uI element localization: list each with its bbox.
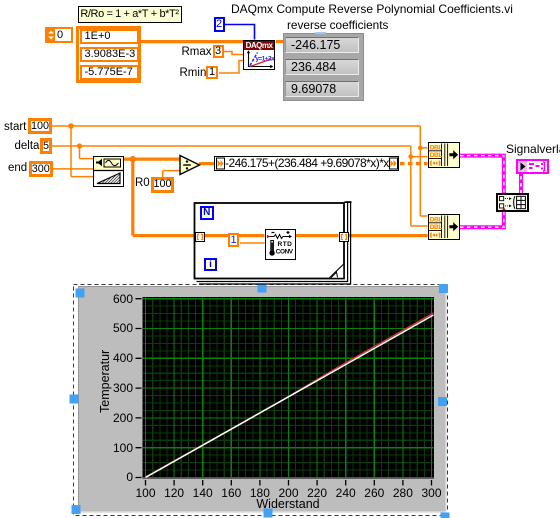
array index box	[45, 27, 73, 43]
op RTD CONV icon	[265, 229, 296, 260]
svg-text:y=1+2x: y=1+2x	[256, 55, 275, 62]
op DAQmx Compute Reverse Polynomial Coefficients icon	[243, 40, 275, 70]
label reverse coefficients	[287, 19, 388, 32]
graph panel background	[79, 287, 447, 513]
array element -5.775E-7	[80, 65, 140, 80]
op convert to dynamic data (top)	[428, 142, 460, 168]
array element 1E+0	[80, 29, 140, 44]
for loop structure	[190, 198, 355, 290]
y axis ticks	[136, 299, 142, 478]
label Rmax	[182, 46, 212, 59]
svg-text:DBL: DBL	[429, 152, 442, 159]
wire: ramp output to divide (thick)	[124, 158, 181, 161]
wire: R0 100 to divide	[163, 171, 181, 178]
wire: start branch down to ramp input	[71, 126, 93, 177]
indicator cell 236.484	[285, 59, 359, 75]
loop left tunnel	[195, 232, 205, 242]
graph y tick labels	[110, 293, 133, 306]
label start	[4, 121, 26, 134]
junction dot delta right	[408, 154, 413, 159]
constant R0 100	[151, 177, 174, 193]
wire: dynamic data bottom DBL to merge signals (magenta)	[460, 210, 504, 227]
loop count N	[200, 206, 214, 220]
junction dot start	[68, 123, 74, 129]
label R0	[135, 177, 150, 190]
op merge signals	[496, 193, 529, 212]
wire: DAQmx VI to reverse coefficients indicator	[276, 40, 283, 43]
terminal Signalverlauf graph (dynamic data)	[516, 159, 549, 174]
constant 2 (blue)	[214, 17, 225, 32]
svg-text:CONV: CONV	[275, 249, 293, 256]
wire: merge signals to Signalverlauf terminal (magenta)	[519, 173, 523, 194]
graph x tick labels	[134, 487, 158, 500]
svg-text:RTD: RTD	[277, 241, 292, 248]
selection handle bottom-mid	[264, 509, 273, 518]
x axis ticks	[146, 480, 432, 486]
plot white data line	[146, 315, 434, 478]
constant Rmin 1	[206, 66, 218, 79]
free label R/Ro formula	[78, 6, 182, 23]
selection handle mid-right	[438, 397, 447, 406]
wire: constant 1 to RTD icon	[240, 242, 265, 244]
constant Rmax 3	[213, 45, 224, 58]
op divide	[178, 153, 202, 177]
wire: divide to expression node (thick)	[199, 162, 214, 165]
wire: array constant to DAQmx VI (thick orange)	[141, 40, 243, 43]
selection handle top-right	[439, 284, 448, 293]
junction dot start right	[418, 146, 423, 151]
constant delta 5	[40, 138, 52, 154]
wire: Rmax 3 to DAQmx VI	[224, 52, 243, 55]
indicator cell 9.69078	[285, 81, 359, 97]
indicator cell -246.175	[285, 37, 359, 53]
graph selection marching ants	[74, 285, 448, 516]
loop iterator i	[204, 258, 217, 271]
wire: loop output to bottom DBL converter (thick)	[346, 234, 428, 237]
wire: RTD icon to right tunnel	[296, 234, 339, 237]
label Rmin	[180, 67, 207, 80]
wire: constant 2 to DAQmx VI (blue)	[225, 25, 255, 40]
loop right tunnel	[339, 232, 349, 242]
indicator index mark	[315, 32, 326, 34]
wire: dynamic data top DBL to merge signals (magenta)	[460, 156, 504, 194]
op convert to dynamic data (bottom)	[428, 214, 460, 240]
label DAQmx Compute Reverse Polynomial Coefficients.vi	[231, 3, 513, 16]
array element 3.9083E-3	[80, 47, 140, 62]
svg-text:DBL: DBL	[429, 144, 442, 151]
graph major grid	[143, 298, 434, 479]
wire: delta 5 long run to DBL converters	[52, 146, 428, 226]
wire: start 100 long run to DBL converters	[52, 126, 428, 216]
constant end 300	[29, 161, 54, 177]
dog ear	[330, 265, 344, 278]
wire: Rmin 1 to DAQmx VI	[219, 61, 243, 74]
indicator reverse coefficients array frame	[283, 33, 364, 101]
expression node	[214, 156, 399, 171]
constant 1 in loop	[228, 233, 239, 247]
label delta	[15, 140, 40, 153]
svg-text:DBL: DBL	[429, 224, 442, 231]
graph x axis label Widerstand	[253, 498, 323, 511]
wire: loop tunnel to RTD icon	[203, 234, 265, 237]
plot red fit curve	[146, 313, 434, 477]
label end	[8, 162, 27, 175]
wire: end 300 to ramp input	[53, 168, 93, 170]
wire: delta branch down to ramp input	[80, 146, 94, 159]
wire: ramp output branch down into for loop tunnel (thick)	[133, 159, 196, 236]
constant start 100	[28, 118, 52, 134]
selection handle bottom-left	[72, 505, 81, 514]
op Ramp Pattern icon	[93, 156, 124, 187]
label Signalverlauf	[506, 143, 560, 156]
svg-text:DBL: DBL	[429, 216, 442, 223]
array constant frame	[76, 26, 142, 84]
junction dot delta	[77, 143, 82, 148]
graph minor grid	[143, 298, 434, 479]
selection handle top-mid	[258, 284, 267, 293]
selection handle mid-left	[70, 395, 79, 404]
junction dot ramp output	[130, 156, 136, 162]
wire: expression node output dashed to top DBL converter	[400, 162, 428, 165]
selection handle bottom-right	[441, 513, 450, 518]
selection handle top-left	[76, 289, 85, 298]
graph y axis label Temperatur	[99, 349, 112, 412]
graph plot area	[143, 297, 435, 479]
